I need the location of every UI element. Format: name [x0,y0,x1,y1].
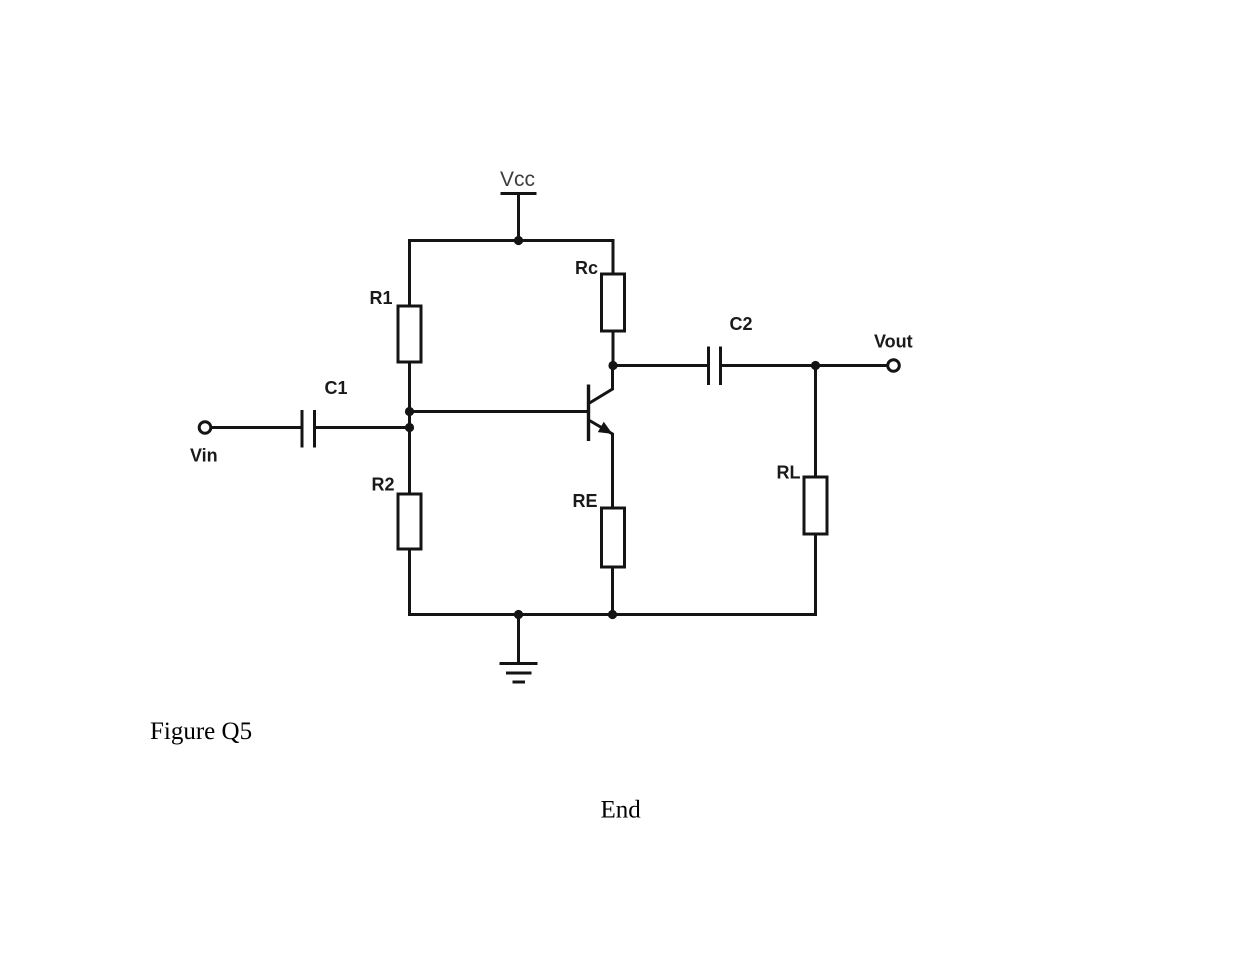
wire load branch upper [814,366,817,478]
wire base [410,410,588,413]
resistor RL [804,477,827,534]
wire output left [613,364,709,367]
transistor Q1 [589,366,613,509]
wire top rail [410,239,614,242]
node Vcc junction [514,236,523,245]
svg-text:RE: RE [573,491,598,511]
wire left branch upper [408,239,411,306]
svg-text:Vin: Vin [190,446,218,466]
resistor R2 [398,494,421,549]
wire right branch upper [612,239,615,274]
wire emitter lower [611,567,614,616]
wire output right [721,364,887,367]
wire left branch lower [408,549,411,616]
ground [500,615,538,683]
svg-text:R2: R2 [372,475,395,495]
node emitter junction [608,610,617,619]
node ground junction [514,610,523,619]
wire left branch middle [408,362,411,494]
resistor R1 [398,306,421,362]
Vcc supply bar [501,192,537,195]
node collector junction [608,361,617,370]
node input junction [405,423,414,432]
svg-text:Figure Q5: Figure Q5 [150,718,252,745]
capacitor C2 [709,347,721,386]
svg-text:Vout: Vout [874,332,913,352]
capacitor C1 [302,410,315,448]
svg-text:C1: C1 [325,378,348,398]
resistor RE [602,508,625,567]
wire collector [612,331,615,366]
svg-text:Rc: Rc [575,258,598,278]
wire input right [315,426,410,429]
terminal Vout [888,360,900,372]
resistor Rc [602,274,625,331]
wire bottom rail [410,613,816,616]
svg-text:C2: C2 [730,314,753,334]
svg-text:End: End [601,797,642,824]
terminal Vin [199,422,211,434]
svg-text:RL: RL [777,463,801,483]
wire input left [212,426,303,429]
svg-text:Vcc: Vcc [500,168,535,191]
wire Vcc stem [517,194,520,241]
node output junction [811,361,820,370]
wire load branch lower [814,534,817,616]
svg-text:R1: R1 [370,288,393,308]
node base junction [405,407,414,416]
